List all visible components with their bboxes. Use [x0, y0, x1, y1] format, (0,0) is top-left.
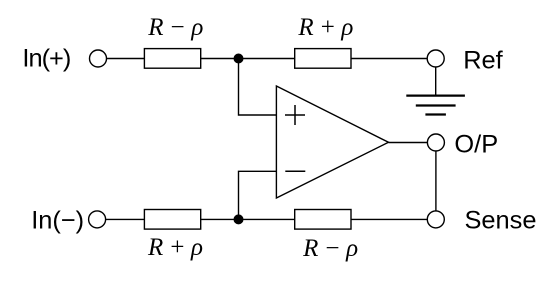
- resistor R+rho (bottom left): [144, 210, 200, 230]
- op-amp minus input marker: [285, 170, 305, 172]
- svg-text:O/P: O/P: [454, 131, 498, 159]
- wire R3 to node B: [201, 218, 239, 220]
- resistor R+rho (top right): [295, 49, 351, 69]
- svg-text:Ref: Ref: [463, 46, 503, 74]
- wire op-amp output to O/P: [389, 142, 428, 144]
- ground: [406, 96, 465, 115]
- wire R4 to Sense: [351, 218, 427, 220]
- op-amp U1: [276, 86, 388, 198]
- wire R1 to node A: [201, 58, 239, 60]
- wire Ref to ground: [435, 67, 437, 96]
- wire R2 to Ref: [351, 58, 427, 60]
- svg-text:In(−): In(−): [31, 206, 84, 234]
- svg-text:R + ρ: R + ρ: [297, 14, 353, 41]
- wire In(-) to R3: [106, 218, 144, 220]
- wire node B to R4: [239, 218, 295, 220]
- terminal In(+): [90, 50, 107, 67]
- svg-text:Sense: Sense: [465, 206, 537, 234]
- node B junction dot: [234, 214, 244, 224]
- wire node A to op-amp plus input: [239, 59, 277, 116]
- op-amp plus input marker: [285, 105, 305, 125]
- resistor R-rho (top left): [144, 49, 200, 69]
- terminal Ref: [427, 50, 444, 67]
- terminal In(-): [89, 211, 106, 228]
- svg-text:R − ρ: R − ρ: [147, 14, 203, 41]
- svg-text:R − ρ: R − ρ: [302, 235, 358, 262]
- terminal Sense: [427, 211, 444, 228]
- node A junction dot: [234, 54, 244, 64]
- wire In(+) to R1: [107, 58, 145, 60]
- wire node B to op-amp minus input: [239, 171, 277, 219]
- resistor R-rho (bottom right): [295, 210, 351, 230]
- wire O/P to Sense: [435, 151, 437, 211]
- terminal O/P: [427, 134, 444, 151]
- svg-text:R + ρ: R + ρ: [147, 234, 203, 261]
- svg-text:In(+): In(+): [22, 45, 70, 73]
- wire node A to R2: [239, 58, 295, 60]
